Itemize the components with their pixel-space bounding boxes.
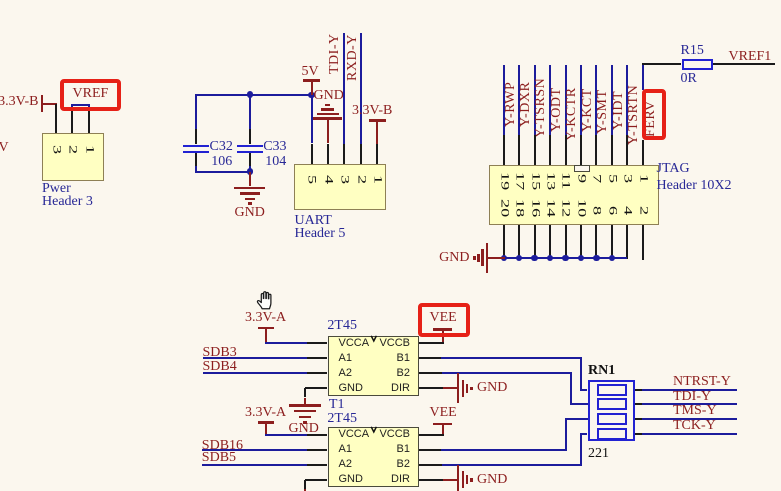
- pin 3: [55, 104, 57, 133]
- power port 3.3V-B (top-left): [0, 96, 39, 108]
- pin number 20: [498, 199, 510, 217]
- wire 3.3V-A to VCCA (T2): [265, 434, 307, 436]
- designator UART: [295, 215, 332, 227]
- JTAG top pin col 3: [549, 135, 551, 165]
- node junction GND bus 0: [501, 255, 508, 262]
- pin RN1 element 4: [635, 433, 642, 435]
- node junction GND bus 4: [562, 255, 569, 262]
- JTAG bottom pin col 1: [518, 225, 520, 259]
- pin name VCCB: [379, 337, 410, 349]
- pin name DIR: [391, 382, 410, 394]
- pin number 3: [621, 174, 633, 183]
- net label VREF (JTAG): [645, 100, 657, 137]
- wire TCK-Y: [642, 433, 737, 435]
- JTAG top pin col 8: [626, 135, 628, 165]
- wire B1 to RN1: [441, 357, 583, 359]
- pin number 13: [544, 172, 556, 190]
- pin name A2: [339, 367, 352, 379]
- pin number 12: [559, 199, 571, 217]
- resistor RN1 element 2: [597, 398, 628, 410]
- pin VCCA (T1): [307, 342, 328, 344]
- designator Pwer: [42, 183, 71, 195]
- ground symbol (T1): [289, 404, 321, 406]
- pin VCCA (T2): [307, 434, 328, 436]
- JTAG bottom pin col 4: [565, 225, 567, 259]
- pin B2 (T1): [419, 372, 442, 374]
- wire NTRST-Y: [626, 65, 628, 136]
- power port VEE (T1): [430, 312, 457, 324]
- pin VCCB (T2): [419, 434, 444, 436]
- net label NSRST-Y: [535, 78, 547, 138]
- resistor network RN1 outline: [588, 380, 635, 441]
- wire TCK-Y: [580, 65, 582, 136]
- key notch on header: [574, 165, 590, 172]
- wire B2 to RN1: [442, 372, 572, 374]
- pin name VCCA: [339, 428, 370, 440]
- pin number 1: [637, 174, 649, 183]
- designator 2T45 (T2): [327, 413, 357, 425]
- pin name GND: [339, 473, 363, 485]
- pin name DIR: [391, 473, 410, 485]
- wire R15 to VREF1: [713, 63, 776, 65]
- JTAG top pin col 7: [611, 135, 613, 165]
- net label SDB4: [203, 361, 237, 373]
- pin 4 of UART header: [327, 144, 329, 165]
- pin number 10: [575, 199, 587, 217]
- wire PWR-Y: [503, 65, 505, 136]
- pin number 5: [305, 175, 317, 184]
- JTAG top pin col 5: [580, 135, 582, 165]
- highlight box around VREF: [60, 79, 122, 111]
- wire TDI-Y: [611, 65, 613, 136]
- net label TCK-Y: [582, 88, 594, 132]
- net label TDI-Y: [329, 34, 341, 75]
- IC 2T45 body: [328, 336, 420, 396]
- JTAG bottom pin col 6: [595, 225, 597, 259]
- node junction GND bus 7: [609, 255, 616, 262]
- wire cap bottoms: [195, 171, 251, 173]
- pin number 11: [559, 172, 571, 190]
- net label RTCK-Y: [566, 88, 578, 142]
- wire 3.3V-A to VCCA: [265, 342, 307, 344]
- wire TDI-Y: [343, 33, 345, 144]
- JTAG bottom pin col 5: [580, 225, 582, 259]
- pin VCCB (T1): [419, 342, 444, 344]
- resistor RN1 element 1: [597, 384, 628, 396]
- net label SDB5: [202, 452, 236, 464]
- pin B1 (T1): [419, 357, 441, 359]
- pin number 7: [590, 174, 602, 183]
- pin B1 (T2): [419, 449, 441, 451]
- wire B1 to RN1 (T2): [441, 449, 567, 451]
- net label PWR-Y: [505, 81, 517, 126]
- node junction GND bus 5: [578, 255, 585, 262]
- pin 3 of UART header: [343, 144, 345, 165]
- wire SDB16: [202, 449, 307, 451]
- label V (clipped at edge): [0, 142, 9, 154]
- designator RN1: [588, 365, 615, 377]
- connector JTAG Header 10X2 body: [489, 165, 659, 225]
- wire RTCK-Y: [565, 65, 567, 136]
- capacitor C33: [249, 95, 251, 129]
- pin number 19: [498, 172, 510, 190]
- wire TMS-Y: [642, 418, 737, 420]
- power port GND at DIR (T1): [443, 387, 458, 389]
- pin RN1 element 3: [635, 418, 642, 420]
- net label RXD-Y: [520, 81, 532, 126]
- pin name VCCA: [339, 337, 370, 349]
- power port 5V: [302, 66, 319, 78]
- pin number 15: [529, 172, 541, 190]
- pin name A2: [339, 458, 352, 470]
- net label TMS-Y: [597, 90, 609, 135]
- wire SDB4: [203, 372, 307, 374]
- pin name B2: [397, 367, 410, 379]
- pin number 2: [355, 175, 367, 184]
- node junction at 5V: [308, 92, 315, 99]
- ground symbol below caps: [249, 172, 251, 187]
- JTAG top pin col 6: [595, 135, 597, 165]
- wire GND bus: [504, 257, 627, 259]
- net label TMS-Y: [673, 405, 717, 417]
- pin DIR (T1): [419, 387, 443, 389]
- net label VREF1: [729, 51, 772, 63]
- node junction at cap GND: [247, 168, 254, 175]
- pin DIR (T2): [419, 479, 443, 481]
- net label NTRST-Y: [628, 85, 640, 145]
- wire TDO-Y: [549, 65, 551, 136]
- wire NTRST-Y: [642, 389, 737, 391]
- JTAG pin 1 line: [642, 140, 644, 165]
- resistor RN1 element 4: [597, 428, 628, 440]
- IC notch mark: [370, 335, 378, 343]
- JTAG top pin col 1: [518, 135, 520, 165]
- wire 5V to pin 5: [311, 95, 313, 144]
- power port 3.3V-A (T1): [245, 312, 286, 324]
- node junction GND bus 2: [531, 255, 538, 262]
- pin GND (T1): [305, 387, 328, 389]
- net label SDB16: [202, 440, 243, 452]
- wire VREF joining pins 1-2: [71, 104, 73, 111]
- pin number 1: [371, 175, 383, 184]
- designator 2T45 (T1): [327, 320, 357, 332]
- net label TCK-Y: [673, 420, 716, 432]
- highlight box around VEE: [418, 303, 471, 338]
- net label RXD-Y: [347, 34, 359, 81]
- net label TDO-Y: [551, 88, 563, 133]
- pin number 8: [590, 206, 602, 215]
- node junction GND bus 1: [516, 255, 523, 262]
- IC 2T45 body: [328, 427, 420, 487]
- JTAG pin 2 line: [642, 225, 644, 260]
- pin name B1: [397, 443, 410, 455]
- pin 2: [71, 111, 73, 134]
- pin A2 (T1): [307, 372, 328, 374]
- pin number 17: [513, 172, 525, 190]
- hand pan cursor: [256, 290, 276, 310]
- JTAG bottom pin col 0: [503, 225, 505, 259]
- net label TDI-Y: [673, 391, 711, 403]
- pin 2 of UART header: [360, 144, 362, 165]
- pin number 4: [322, 175, 334, 184]
- resistor RN1 element 3: [597, 413, 628, 425]
- pin name VCCB: [379, 428, 410, 440]
- pin 1 of UART header: [376, 144, 378, 165]
- pin B2 (T2): [419, 464, 442, 466]
- JTAG top pin col 0: [503, 135, 505, 165]
- pin number 18: [513, 199, 525, 217]
- pin A2 (T2): [307, 464, 328, 466]
- JTAG top pin col 2: [534, 135, 536, 165]
- value 221: [588, 448, 609, 460]
- connector UART Header 5 body: [294, 164, 386, 210]
- pin number 14: [544, 199, 556, 217]
- wire SDB5: [202, 464, 307, 466]
- wire TMS-Y: [595, 65, 597, 136]
- node junction at C33 top: [247, 91, 254, 98]
- net label VREF: [73, 88, 109, 100]
- JTAG bottom pin col 3: [549, 225, 551, 259]
- resistor R15: [682, 59, 713, 70]
- pin RN1 element 1: [635, 389, 642, 391]
- pin A1 (T2): [307, 449, 328, 451]
- JTAG bottom pin col 2: [534, 225, 536, 259]
- pin number 3: [338, 175, 350, 184]
- wire RXD-Y: [518, 65, 520, 136]
- wire GND down: [304, 388, 306, 397]
- designator T1: [329, 399, 345, 411]
- connector Pwer Header 3 body: [42, 133, 104, 181]
- pin 1: [88, 111, 90, 134]
- net label TDI-Y: [613, 91, 625, 130]
- pin name B1: [397, 352, 410, 364]
- pin name A1: [339, 443, 352, 455]
- net label SDB3: [203, 347, 237, 359]
- pin number 5: [606, 174, 618, 183]
- pin RN1 element 2: [635, 403, 642, 405]
- wire B2 to RN1 (T2): [442, 464, 582, 466]
- IC notch mark: [370, 426, 378, 434]
- power port 3.3V-B at pin 1: [352, 105, 392, 117]
- power port GND at DIR (T2): [443, 479, 458, 481]
- pin A1 (T1): [307, 357, 328, 359]
- pin number 2: [637, 206, 649, 215]
- power port GND (JTAG): [487, 257, 505, 259]
- highlight box around VREF: [642, 89, 667, 140]
- node junction GND bus 6: [593, 255, 600, 262]
- pin name B2: [397, 458, 410, 470]
- power port VEE (T2): [430, 407, 457, 419]
- wire TDI-Y: [642, 403, 737, 405]
- pin number 16: [529, 199, 541, 217]
- wire 5V rail: [195, 94, 251, 96]
- pin name GND: [339, 382, 363, 394]
- wire SDB3: [203, 357, 307, 359]
- capacitor C32: [195, 95, 197, 129]
- wire 3.3V-B to pin 3: [41, 103, 57, 105]
- pin 5 of UART header: [311, 144, 313, 165]
- pin number 9: [575, 174, 587, 183]
- JTAG bottom pin col 7: [611, 225, 613, 259]
- designator JTAG: [657, 163, 690, 175]
- wire VREF to R15: [642, 63, 644, 90]
- wire RXD-Y: [360, 33, 362, 144]
- power port 3.3V-A (T2): [245, 407, 286, 419]
- power port GND at pin 4: [314, 90, 344, 102]
- wire GND down (T2): [304, 480, 306, 489]
- node junction GND bus 3: [547, 255, 554, 262]
- JTAG top pin col 4: [565, 135, 567, 165]
- wire NSRST-Y: [534, 65, 536, 136]
- net label NTRST-Y: [673, 376, 731, 388]
- pin number 6: [606, 206, 618, 215]
- JTAG bottom pin col 8: [626, 225, 628, 259]
- pin number 4: [621, 206, 633, 215]
- pin GND (T2): [305, 479, 328, 481]
- pin name A1: [339, 352, 352, 364]
